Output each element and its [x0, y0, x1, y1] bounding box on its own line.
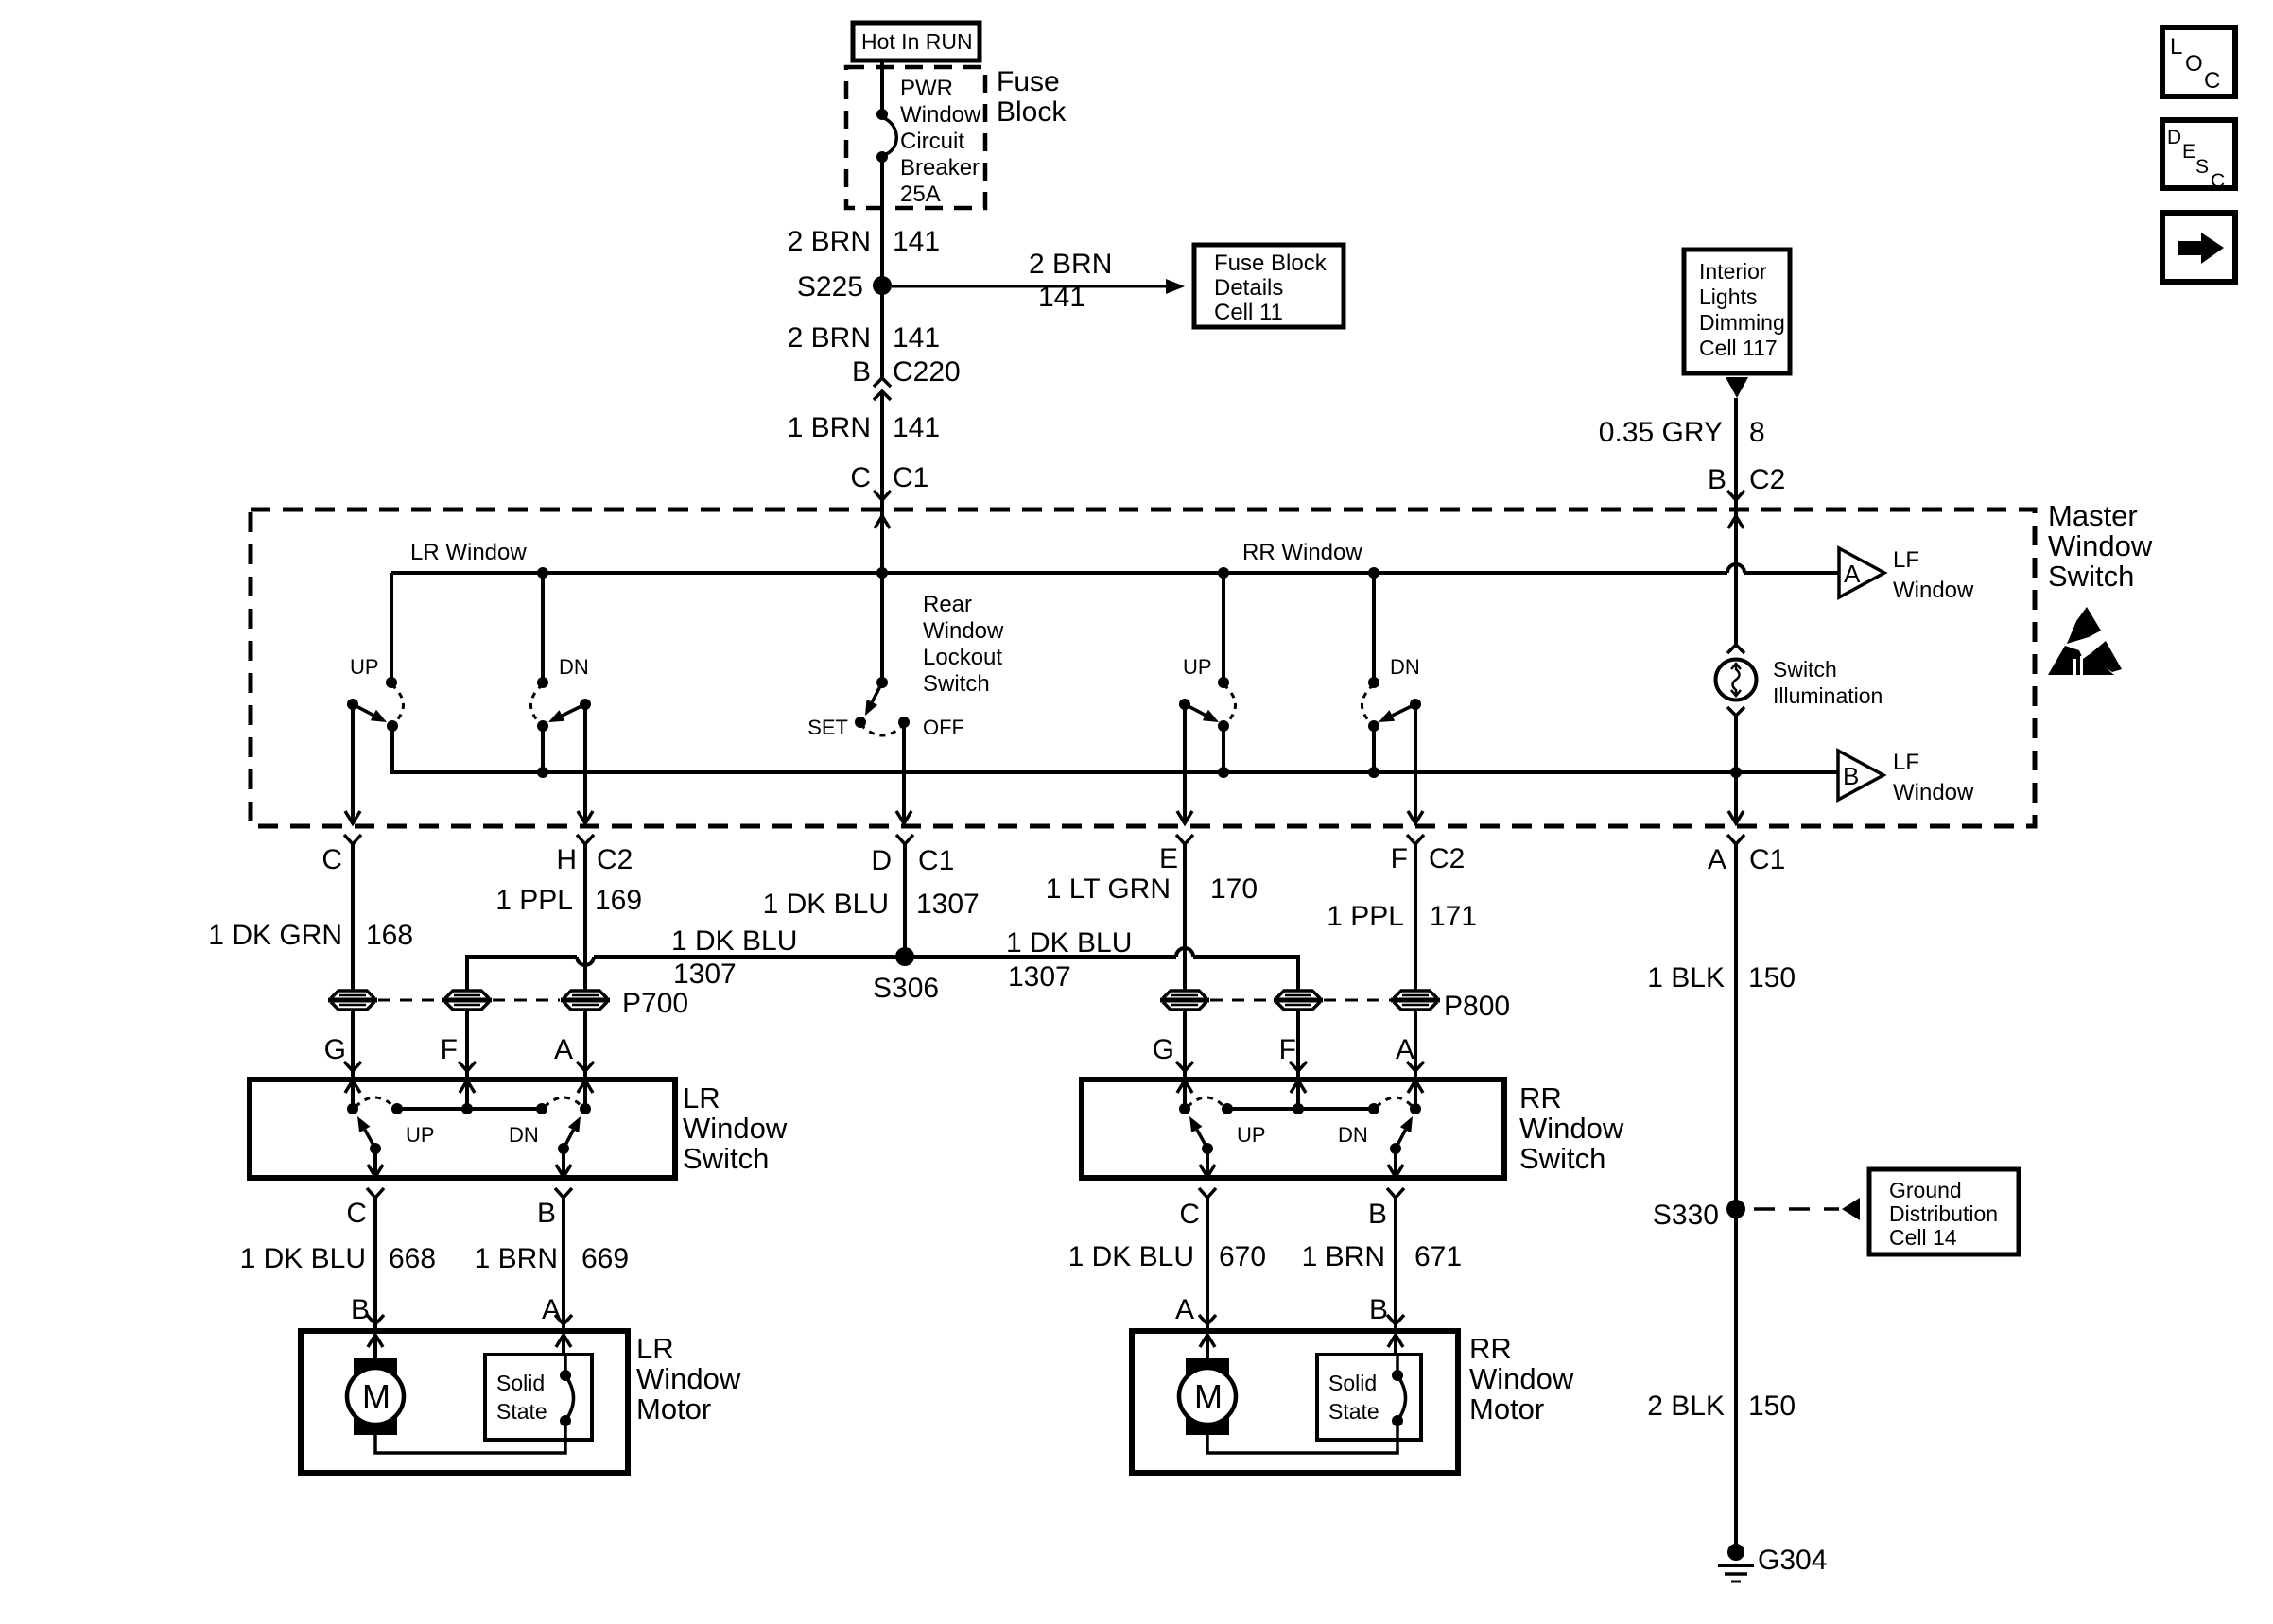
- svg-text:Solid: Solid: [1328, 1371, 1377, 1395]
- svg-text:PWR: PWR: [900, 76, 953, 101]
- legend icon arrow: [2162, 213, 2235, 282]
- wire 1 PPL 171 (RR down): [1327, 844, 1477, 1077]
- svg-text:M: M: [1194, 1377, 1223, 1416]
- ESD sensitive device symbol: [2048, 607, 2122, 675]
- reference box: Interior Lights Dimming Cell 117: [1684, 250, 1790, 373]
- svg-text:168: 168: [366, 920, 413, 951]
- RR switch pin G arrow: [1177, 1080, 1192, 1109]
- splice S306: [873, 947, 939, 1004]
- component label: RR Window Switch: [1519, 1081, 1624, 1175]
- svg-text:A: A: [1396, 1034, 1414, 1065]
- LR switch pin C: [346, 1188, 384, 1229]
- svg-text:B: B: [351, 1294, 370, 1325]
- RR UP switch feed wire: [1222, 573, 1225, 682]
- rear window lockout switch feed: [880, 573, 884, 682]
- output arrow LR window down (pin H): [578, 704, 593, 823]
- svg-text:C: C: [1179, 1199, 1200, 1230]
- RR UP switch contacts: [1218, 677, 1236, 772]
- RR switch pin C: [1179, 1188, 1216, 1230]
- svg-text:1 BLK: 1 BLK: [1647, 962, 1725, 993]
- output arrow RR window down (pin F): [1408, 704, 1423, 823]
- RR switch output B arrow: [1388, 1149, 1403, 1177]
- svg-text:Breaker: Breaker: [900, 155, 980, 181]
- svg-text:C: C: [2204, 68, 2220, 94]
- connector pin H (C2): [556, 835, 633, 875]
- grommet P800 dashed links: [1210, 999, 1391, 1002]
- grommet P700 dashed links: [378, 999, 560, 1002]
- svg-text:F: F: [441, 1034, 458, 1065]
- svg-text:1307: 1307: [916, 889, 980, 920]
- label SET: [807, 716, 848, 739]
- svg-text:Window: Window: [2048, 529, 2153, 562]
- connector pin E: [1159, 835, 1193, 874]
- splice S225: [797, 271, 892, 302]
- svg-text:0.35 GRY: 0.35 GRY: [1599, 417, 1723, 448]
- dashed reference arrow to Ground Distribution: [1754, 1198, 1860, 1220]
- svg-text:B: B: [1369, 1294, 1388, 1325]
- RR switch pin F: [1279, 1034, 1307, 1071]
- wire 2 BLK 150 (to ground): [1647, 1209, 1796, 1547]
- svg-text:Window: Window: [683, 1112, 788, 1145]
- connector C2 pin B at master switch: [1708, 464, 1785, 500]
- svg-text:Switch: Switch: [1773, 657, 1837, 682]
- svg-text:150: 150: [1748, 1391, 1796, 1422]
- svg-text:RR: RR: [1469, 1332, 1512, 1365]
- svg-text:F: F: [1391, 843, 1408, 874]
- output arrow lockout (pin D): [896, 722, 911, 823]
- RR DN switch feed wire: [1372, 573, 1376, 682]
- svg-text:M: M: [362, 1377, 390, 1416]
- reference box: Ground Distribution Cell 14: [1869, 1169, 2019, 1254]
- RR switch down arm: [1390, 1116, 1413, 1154]
- svg-text:C: C: [321, 844, 342, 875]
- RR switch up arm: [1189, 1116, 1213, 1154]
- svg-text:1 LT GRN: 1 LT GRN: [1046, 873, 1171, 905]
- LR switch down arm: [558, 1116, 581, 1154]
- svg-text:1 DK BLU: 1 DK BLU: [671, 925, 797, 957]
- svg-text:1 DK BLU: 1 DK BLU: [1068, 1241, 1194, 1272]
- label UP (RR switch): [1237, 1123, 1266, 1147]
- motor M1 (LR window motor): [347, 1358, 404, 1435]
- svg-text:C2: C2: [1429, 843, 1465, 874]
- svg-text:Switch: Switch: [683, 1142, 769, 1175]
- svg-text:2 BLK: 2 BLK: [1647, 1391, 1725, 1422]
- triangle connector A to LF Window: [1839, 547, 1974, 603]
- svg-text:DN: DN: [1390, 655, 1420, 679]
- component label: LR Window Motor: [636, 1332, 741, 1425]
- svg-text:A: A: [1708, 844, 1726, 875]
- svg-text:25A: 25A: [900, 181, 941, 207]
- svg-text:D: D: [2167, 127, 2181, 148]
- svg-text:C1: C1: [918, 845, 954, 876]
- label UP (LR switch): [406, 1123, 435, 1147]
- svg-text:B: B: [1843, 762, 1859, 790]
- wire 1 DK BLU 670: [1068, 1198, 1266, 1324]
- svg-text:Lights: Lights: [1699, 285, 1757, 309]
- svg-text:Circuit: Circuit: [900, 129, 964, 154]
- svg-text:D: D: [871, 845, 892, 876]
- RR switch A contact: [1377, 1097, 1421, 1114]
- svg-text:Dimming: Dimming: [1699, 310, 1785, 335]
- LR window motor box: [301, 1331, 628, 1473]
- svg-text:A: A: [1175, 1294, 1194, 1325]
- RR window switch box: [1082, 1080, 1504, 1178]
- svg-text:DN: DN: [509, 1123, 539, 1147]
- svg-text:2 BRN: 2 BRN: [788, 226, 871, 257]
- output arrow illumination return (pin A): [1728, 811, 1744, 823]
- RR motor pin A: [1175, 1294, 1216, 1333]
- svg-text:Rear: Rear: [923, 592, 972, 617]
- RR switch pin A arrow: [1408, 1080, 1423, 1109]
- svg-text:170: 170: [1210, 873, 1258, 905]
- wire: S225 to connector C220: [880, 285, 884, 377]
- svg-text:A: A: [542, 1294, 561, 1325]
- svg-text:C: C: [850, 462, 871, 493]
- svg-text:2 BRN: 2 BRN: [1029, 249, 1112, 280]
- LR DN switch feed wire: [541, 573, 545, 682]
- svg-text:C1: C1: [893, 462, 928, 493]
- wire label 2 BRN 141 (below S225): [788, 322, 940, 354]
- LR DN switch arm: [548, 699, 591, 722]
- svg-text:C: C: [346, 1198, 367, 1229]
- LR switch A contact: [545, 1097, 591, 1114]
- RR DN switch contacts: [1362, 677, 1379, 772]
- svg-text:DN: DN: [1338, 1123, 1368, 1147]
- svg-text:A: A: [1844, 560, 1861, 588]
- wire 1 DK BLU 1307 (lockout to S306): [763, 844, 980, 957]
- svg-text:F: F: [1279, 1034, 1296, 1065]
- svg-text:671: 671: [1414, 1241, 1462, 1272]
- output arrow RR window up (pin E): [1177, 704, 1192, 823]
- RR motor solid state module: [1317, 1355, 1421, 1440]
- bottom bus junction nodes: [537, 767, 1742, 778]
- LR UP switch feed wire: [390, 573, 393, 682]
- wire 1 DK BLU 1307 right branch: [913, 927, 1298, 1077]
- legend icon LOC: [2162, 27, 2235, 96]
- LR motor pin A: [542, 1294, 572, 1333]
- svg-text:G304: G304: [1758, 1545, 1827, 1576]
- bus label RR Window: [1242, 540, 1362, 565]
- svg-text:1 DK BLU: 1 DK BLU: [1006, 927, 1132, 959]
- LR switch pin B: [537, 1188, 572, 1229]
- RR motor pin A arrow: [1200, 1335, 1215, 1361]
- RR switch pin A: [1396, 1034, 1424, 1071]
- svg-text:Interior: Interior: [1699, 259, 1767, 284]
- svg-text:1 PPL: 1 PPL: [1327, 901, 1404, 932]
- connector pin D (C1): [871, 835, 954, 876]
- svg-text:C1: C1: [1749, 844, 1785, 875]
- svg-text:C2: C2: [1749, 464, 1785, 495]
- connector C1 pin C at master switch: [850, 462, 928, 500]
- svg-text:1 DK BLU: 1 DK BLU: [240, 1243, 366, 1274]
- svg-text:1 DK GRN: 1 DK GRN: [208, 920, 342, 951]
- connector pin F (C2): [1391, 835, 1466, 874]
- svg-text:S225: S225: [797, 271, 863, 302]
- fuse block dashed outline: [846, 67, 985, 208]
- svg-text:B: B: [537, 1198, 556, 1229]
- label OFF: [923, 716, 964, 739]
- svg-text:UP: UP: [1237, 1123, 1266, 1147]
- svg-text:UP: UP: [350, 655, 379, 679]
- wire 1 DK GRN 168 (LR up): [208, 844, 413, 1077]
- svg-text:Switch: Switch: [2048, 560, 2134, 593]
- component label: LR Window Switch: [683, 1081, 788, 1175]
- svg-text:E: E: [1159, 843, 1178, 874]
- motor M2 (RR window motor): [1179, 1358, 1236, 1435]
- svg-text:B: B: [852, 356, 871, 388]
- svg-text:141: 141: [1038, 282, 1085, 313]
- bus label LR Window: [410, 540, 527, 565]
- rear window lockout switch: [855, 677, 910, 735]
- LR switch pin A arrow: [578, 1080, 593, 1109]
- svg-text:Motor: Motor: [636, 1392, 711, 1425]
- svg-text:141: 141: [893, 412, 940, 443]
- LR UP switch arm: [347, 699, 387, 722]
- component label: Master Window Switch: [2048, 499, 2153, 593]
- LR switch up arm: [357, 1116, 381, 1154]
- grommet P700 terminal 2: [442, 990, 492, 1011]
- LR UP switch contacts: [386, 677, 404, 772]
- arrow from Interior Lights Dimming box: [1726, 377, 1748, 398]
- svg-text:SET: SET: [807, 716, 848, 739]
- LR switch pin G arrow: [345, 1080, 360, 1109]
- label DN (LR): [559, 655, 589, 679]
- svg-text:S306: S306: [873, 973, 939, 1004]
- svg-text:Fuse: Fuse: [997, 66, 1060, 97]
- label DN (RR switch): [1338, 1123, 1368, 1147]
- svg-text:Solid: Solid: [496, 1371, 545, 1395]
- wire: dimming feed to master switch connector C2: [1734, 398, 1738, 510]
- connector pin C (C1): [321, 835, 361, 875]
- svg-text:1 BRN: 1 BRN: [475, 1243, 558, 1274]
- svg-text:1 PPL: 1 PPL: [495, 885, 573, 916]
- wire: lamp to bottom bus and out: [1734, 716, 1738, 823]
- wire 1 PPL 169 (LR down): [495, 844, 642, 1077]
- svg-text:Master: Master: [2048, 499, 2138, 532]
- svg-text:169: 169: [595, 885, 642, 916]
- circuit breaker PWR Window Circuit Breaker 25A: [876, 76, 981, 207]
- LR motor internal return wire: [375, 1435, 565, 1453]
- RR DN switch arm: [1379, 699, 1421, 722]
- component label: Rear Window Lockout Switch: [923, 592, 1004, 697]
- svg-text:Window: Window: [1893, 780, 1974, 805]
- svg-text:Window: Window: [1469, 1362, 1574, 1395]
- LR switch common bar: [391, 1103, 547, 1114]
- svg-text:A: A: [554, 1034, 573, 1065]
- connector C220 pin B: [852, 356, 961, 400]
- wire label 2 BRN 141: [788, 226, 940, 257]
- legend icon DESC: [2162, 120, 2235, 192]
- svg-text:141: 141: [893, 322, 940, 354]
- LR switch pin F arrow: [460, 1080, 475, 1109]
- grommet P800 terminal 1: [1160, 990, 1209, 1011]
- power feed label box: Hot In RUN: [853, 23, 980, 60]
- svg-text:E: E: [2182, 141, 2195, 163]
- RR UP switch arm: [1179, 699, 1219, 722]
- RR window motor box: [1132, 1331, 1458, 1473]
- svg-text:RR: RR: [1519, 1081, 1562, 1114]
- svg-text:Window: Window: [1519, 1112, 1624, 1145]
- svg-text:Details: Details: [1214, 275, 1283, 301]
- svg-text:1307: 1307: [1008, 961, 1071, 993]
- grommet P800 terminal 2: [1274, 990, 1323, 1011]
- label UP (RR): [1183, 655, 1212, 679]
- connector pin A (C1): [1708, 835, 1785, 875]
- svg-text:Cell 11: Cell 11: [1214, 300, 1283, 325]
- wire: breaker to S225 splice: [880, 157, 884, 285]
- LR window switch box: [250, 1080, 675, 1178]
- svg-text:2 BRN: 2 BRN: [788, 322, 871, 354]
- wire: Hot In RUN to circuit breaker: [880, 60, 884, 114]
- svg-text:Window: Window: [900, 102, 981, 128]
- grommet P700 terminal 1: [328, 990, 377, 1011]
- label DN (RR): [1390, 655, 1420, 679]
- svg-text:1 BRN: 1 BRN: [788, 412, 871, 443]
- wire 1 BRN 669: [475, 1198, 629, 1324]
- svg-text:S: S: [2195, 156, 2209, 178]
- switch illumination lamp: [1716, 645, 1757, 716]
- svg-text:Window: Window: [1893, 578, 1974, 603]
- svg-text:H: H: [556, 844, 577, 875]
- svg-text:Switch: Switch: [923, 671, 990, 697]
- LR motor pin B: [351, 1294, 384, 1333]
- LR switch pin A: [554, 1034, 594, 1071]
- LR motor solid state module: [485, 1355, 592, 1440]
- svg-text:B: B: [1708, 464, 1726, 495]
- reference box: Fuse Block Details Cell 11: [1194, 245, 1344, 327]
- wire 1 DK BLU 1307 left branch: [467, 925, 896, 1077]
- triangle connector B to LF Window: [1838, 750, 1974, 805]
- RR motor internal return wire: [1207, 1435, 1397, 1453]
- svg-text:Window: Window: [636, 1362, 741, 1395]
- svg-text:1 BRN: 1 BRN: [1302, 1241, 1385, 1272]
- svg-text:LR: LR: [636, 1332, 674, 1365]
- svg-text:S330: S330: [1653, 1200, 1719, 1231]
- svg-text:O: O: [2185, 51, 2203, 77]
- svg-text:C: C: [2211, 170, 2225, 192]
- svg-text:State: State: [496, 1399, 547, 1424]
- svg-text:Switch: Switch: [1519, 1142, 1605, 1175]
- wire 1 BLK 150 (illumination return): [1647, 844, 1796, 1209]
- svg-text:Ground: Ground: [1889, 1178, 1962, 1202]
- svg-text:150: 150: [1748, 962, 1796, 993]
- LR switch output B arrow: [556, 1149, 571, 1177]
- svg-text:668: 668: [389, 1243, 436, 1274]
- RR switch common bar: [1222, 1103, 1379, 1114]
- RR switch pin F arrow: [1291, 1080, 1306, 1109]
- wire 1 BRN 671: [1302, 1198, 1462, 1324]
- svg-text:Illumination: Illumination: [1773, 683, 1883, 708]
- svg-text:Lockout: Lockout: [923, 645, 1002, 670]
- svg-text:G: G: [1153, 1034, 1174, 1065]
- entry arrow: dimming into switch: [1728, 510, 1744, 645]
- svg-text:669: 669: [581, 1243, 629, 1274]
- LR DN switch contacts: [530, 677, 548, 772]
- splice S330: [1653, 1200, 1745, 1231]
- svg-text:B: B: [1368, 1199, 1387, 1230]
- svg-text:DN: DN: [559, 655, 589, 679]
- svg-text:8: 8: [1749, 417, 1765, 448]
- RR motor pin B: [1369, 1294, 1404, 1333]
- svg-text:RR Window: RR Window: [1242, 540, 1362, 565]
- svg-text:C2: C2: [597, 844, 633, 875]
- svg-text:Cell 117: Cell 117: [1699, 336, 1778, 360]
- svg-text:P800: P800: [1444, 991, 1510, 1022]
- svg-text:LR: LR: [683, 1081, 720, 1114]
- wire arrow: S225 to Fuse Block Details: [892, 249, 1185, 313]
- svg-text:C220: C220: [893, 356, 961, 388]
- entry arrow: supply into switch: [875, 510, 890, 573]
- bottom bus wire (window return): [392, 726, 1838, 772]
- grommet P800 terminal 3: [1391, 990, 1510, 1022]
- ground G304: [1718, 1544, 1827, 1581]
- LR motor pin B arrow: [368, 1335, 383, 1361]
- svg-text:Fuse Block: Fuse Block: [1214, 251, 1327, 276]
- svg-text:Motor: Motor: [1469, 1392, 1544, 1425]
- RR motor pin B arrow: [1388, 1335, 1403, 1355]
- grommet P700 terminal 3: [561, 988, 688, 1019]
- RR switch output C arrow: [1200, 1149, 1215, 1177]
- component label: RR Window Motor: [1469, 1332, 1574, 1425]
- wire: C220 to master switch connector C1: [880, 391, 884, 510]
- svg-text:G: G: [324, 1034, 346, 1065]
- svg-text:171: 171: [1430, 901, 1477, 932]
- svg-text:L: L: [2170, 34, 2182, 60]
- wire label 0.35 GRY 8: [1599, 417, 1765, 448]
- svg-text:P700: P700: [622, 988, 688, 1019]
- svg-text:1307: 1307: [673, 959, 737, 990]
- master window switch dashed box: [251, 510, 2035, 826]
- label UP (LR): [350, 655, 379, 679]
- LR switch output C arrow: [368, 1149, 383, 1177]
- svg-text:State: State: [1328, 1399, 1379, 1424]
- svg-text:670: 670: [1219, 1241, 1266, 1272]
- LR motor pin A arrow: [556, 1335, 571, 1355]
- svg-text:OFF: OFF: [923, 716, 964, 739]
- RR switch pin B: [1368, 1188, 1404, 1230]
- svg-text:LF: LF: [1893, 547, 1919, 573]
- component label: Fuse Block: [997, 66, 1067, 128]
- svg-text:141: 141: [893, 226, 940, 257]
- output arrow LR window up (pin C): [345, 704, 360, 823]
- svg-text:Block: Block: [997, 96, 1067, 128]
- svg-text:Cell 14: Cell 14: [1889, 1225, 1957, 1250]
- wire 1 DK BLU 668: [240, 1198, 436, 1324]
- svg-text:LF: LF: [1893, 750, 1919, 775]
- LR switch G contact: [347, 1097, 394, 1114]
- label DN (LR switch): [509, 1123, 539, 1147]
- svg-text:UP: UP: [406, 1123, 435, 1147]
- top bus wire (window supply): [391, 564, 1839, 573]
- svg-text:UP: UP: [1183, 655, 1212, 679]
- wire label 1 BRN 141: [788, 412, 940, 443]
- RR switch G contact: [1179, 1097, 1224, 1114]
- svg-text:Distribution: Distribution: [1889, 1201, 1998, 1226]
- LR switch pin F: [441, 1034, 476, 1071]
- top bus junction nodes: [537, 567, 1379, 579]
- svg-text:Window: Window: [923, 618, 1004, 644]
- svg-text:Hot In RUN: Hot In RUN: [861, 29, 973, 54]
- svg-text:1 DK BLU: 1 DK BLU: [763, 889, 889, 920]
- wire 1 LT GRN 170 (RR up): [1046, 844, 1258, 1077]
- LR switch pin G: [324, 1034, 361, 1071]
- svg-text:LR Window: LR Window: [410, 540, 527, 565]
- label Switch Illumination: [1773, 657, 1883, 708]
- RR switch pin G: [1153, 1034, 1193, 1071]
